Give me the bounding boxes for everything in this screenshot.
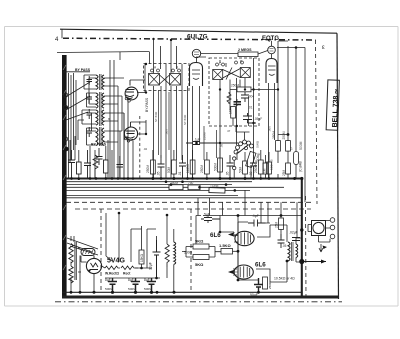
svg-text:SWΩ: SWΩ [256, 140, 260, 148]
capacitor CE5 vertical electrolytic [149, 240, 161, 278]
capacitor C1 [158, 155, 165, 178]
wire coil leads right to tubes [104, 78, 124, 142]
svg-text:EQTG.: EQTG. [262, 36, 281, 42]
wire plate supply vertical 3 [295, 48, 297, 152]
wire R12 joins [278, 135, 288, 164]
svg-text:W.RectΩ: W.RectΩ [105, 272, 119, 276]
svg-text:250M: 250M [203, 132, 207, 140]
inductor CH1 filter choke [174, 242, 176, 264]
svg-text:.1μF: .1μF [194, 138, 200, 142]
wire grid return verticals [124, 100, 133, 179]
svg-text:.1μF: .1μF [252, 214, 259, 218]
wire choke leads [173, 229, 175, 292]
wire diag jack to coil 3 [66, 112, 88, 120]
switch SW1 rotary contacts [234, 140, 253, 154]
box preamp plate network (dashed) [144, 64, 190, 91]
capacitor CL5 [117, 156, 124, 178]
wire top frame line [60, 29, 337, 33]
transformer T3 primary zigzag vertical [69, 244, 73, 264]
label box above tube [81, 249, 95, 256]
resistor RS1 zigzag horizontal [105, 266, 120, 270]
wire diag jack to coil 2 [64, 96, 90, 111]
resistor RB3 1.5K [219, 243, 233, 254]
svg-text:BY PASS: BY PASS [75, 68, 91, 72]
node V4 grid cap [268, 46, 276, 58]
tube V4 6Q7 envelope [266, 59, 277, 84]
node hookup dot mid [287, 133, 290, 136]
wire input top line [57, 52, 149, 53]
svg-text:.006: .006 [268, 126, 272, 132]
resistor RB2 5K lower [193, 255, 209, 268]
tube V7 6L6 lower [233, 265, 253, 279]
resistor RB5 vertical bias [260, 279, 262, 281]
resistor R10 in box2 [237, 87, 251, 92]
wire R6 leads [244, 152, 246, 179]
resistor R7 [258, 160, 263, 174]
capacitor CL2 [84, 150, 91, 178]
resistor R21 inline [188, 185, 200, 190]
node bus junction dots [70, 88, 304, 294]
wire box1 verticals [154, 40, 183, 90]
capacitor C3 coupling mid [186, 142, 238, 145]
wire feedback with arrow [304, 261, 326, 263]
wire diag jack to coil 1 [64, 82, 90, 98]
svg-text:.05: .05 [282, 244, 287, 248]
terminal switch jack 1 [233, 157, 236, 160]
terminal TB1 ring [330, 218, 335, 223]
node V5 pin dots [88, 269, 90, 271]
resistor R12b vertical [286, 141, 291, 152]
svg-text:5V4G: 5V4G [107, 258, 125, 265]
wire R2 leads [153, 150, 174, 179]
svg-text:500V: 500V [144, 287, 152, 291]
wire input box top [63, 72, 90, 90]
svg-text:750: 750 [188, 181, 194, 185]
wire box1 down to bus [154, 86, 183, 178]
svg-text:250M: 250M [282, 131, 286, 139]
wire companion verticals texture [159, 90, 249, 160]
transformer T2 winding pair 2 [96, 127, 104, 146]
wire R3 leads [192, 150, 194, 179]
input jack J3 [63, 137, 67, 141]
svg-text:500M: 500M [299, 141, 303, 150]
svg-text:8μF: 8μF [144, 278, 150, 282]
transformer T1 winding pair 2 [96, 92, 104, 109]
svg-text:.05μF: .05μF [254, 117, 262, 121]
svg-text:30μF: 30μF [149, 262, 153, 270]
wire bottom border thick [62, 296, 338, 299]
tube V5 rectifier 5V4G circle [86, 258, 101, 273]
wire PSU horizontal hookups [131, 229, 156, 268]
capacitor CB3 [278, 234, 285, 248]
svg-text:.02: .02 [143, 147, 148, 151]
svg-text:500V: 500V [105, 287, 113, 291]
node V3 grid cap [192, 49, 200, 62]
capacitor C4 [227, 155, 234, 178]
tube V6 6L6 upper [234, 231, 254, 245]
capacitor C10 [241, 92, 249, 103]
wire plate supply vertical 4 [304, 48, 306, 203]
wire V5 hookups [80, 256, 105, 293]
capacitor CE3 electrolytic [144, 278, 156, 292]
svg-text:.05: .05 [157, 171, 161, 176]
svg-text:8μF: 8μF [128, 278, 134, 282]
wire RB3 to splitter [233, 250, 239, 252]
transformer T3 core lines [75, 242, 76, 280]
svg-text:10.5KΩ or 4Ω: 10.5KΩ or 4Ω [274, 277, 295, 281]
node scatter dots [65, 38, 254, 180]
svg-text:500M: 500M [213, 163, 217, 171]
tube V3 6UL7G envelope [190, 63, 203, 87]
wire input long verticals [69, 73, 77, 178]
svg-text:25M: 25M [282, 169, 286, 176]
svg-text:4: 4 [55, 37, 59, 43]
wire SW1 hookup [236, 126, 250, 160]
input jack J2 [63, 105, 67, 109]
resistor RS2 zigzag horizontal [121, 266, 138, 270]
wire RB pair leads [182, 247, 221, 258]
capacitor Cin3 [87, 109, 93, 119]
capacitor CB5 across primary [292, 238, 300, 241]
wire terminal hookups [319, 221, 331, 243]
wire bus line 2 [66, 181, 252, 183]
node junction dot A [299, 259, 304, 264]
svg-text:8μF: 8μF [105, 278, 111, 282]
wire tube plate leads [130, 64, 146, 134]
wire bottom dash-dot line [55, 301, 342, 303]
svg-text:TONE: TONE [210, 184, 219, 188]
wire coil leads left [78, 75, 96, 145]
svg-text:BELL 738 ∼: BELL 738 ∼ [332, 88, 340, 127]
wire verticals crossing into output box [198, 190, 297, 237]
label BELL 738 box [326, 80, 340, 130]
capacitor CL1 [68, 150, 75, 178]
wire splitter vertical [237, 222, 239, 280]
speaker SP1 cone circle [313, 222, 324, 233]
wire bus line 5 [66, 189, 250, 191]
wire bus line 3 [66, 184, 232, 186]
svg-text:250M: 250M [170, 181, 178, 185]
resistor RS4 zigzag vertical [165, 244, 169, 267]
resistor network RN3 (x-box) [213, 70, 223, 80]
wire V3 pins [188, 57, 207, 178]
svg-text:250M: 250M [200, 165, 204, 173]
svg-text:1MEG: 1MEG [186, 163, 190, 173]
speaker SP1 frame [312, 221, 326, 236]
wire lower-left hookups [70, 136, 95, 178]
wire grid leak link [201, 51, 268, 55]
wire bottom border thin [62, 291, 302, 293]
capacitor C2 [179, 155, 186, 178]
svg-text:ST-56Ω: ST-56Ω [154, 111, 158, 122]
resistor R14 rounded vertical [294, 152, 299, 165]
svg-text:ε: ε [322, 45, 325, 51]
capacitor CE1 electrolytic [105, 278, 117, 292]
wire crossing diagonals box2 [223, 68, 241, 80]
svg-text:.006: .006 [165, 129, 169, 135]
resistor RL3 [104, 160, 109, 173]
wire RS3 leads [135, 229, 147, 268]
transformer T1 winding pair 1 [96, 74, 104, 90]
wire RL1 leads [78, 150, 80, 179]
node V2 pin circles [125, 137, 130, 142]
ground bus left (hatched bar) [62, 55, 67, 298]
resistor R20 inline [169, 185, 183, 190]
svg-text:250M: 250M [272, 131, 276, 139]
node pin circles box2 [216, 61, 244, 66]
wire plate supply vertical 2 [287, 46, 289, 141]
wire top-left corner tick [61, 30, 63, 39]
svg-text:50M: 50M [167, 166, 171, 173]
wire top dash-dot line [63, 38, 316, 40]
svg-text:.02: .02 [249, 171, 253, 176]
svg-text:Rect: Rect [123, 272, 131, 276]
box EQ network (dashed) [209, 58, 259, 126]
speaker SP1 magnet tab [308, 225, 312, 232]
wire crossing diagonals box1 [160, 75, 170, 84]
svg-text:250M: 250M [231, 84, 239, 88]
tube V1 internals [126, 80, 135, 99]
node hookup dot top [295, 46, 298, 49]
node junction dot B [300, 228, 303, 231]
resistor R4 [205, 160, 210, 174]
wire top hookups right [277, 41, 305, 48]
svg-text:47: 47 [227, 129, 231, 133]
svg-text:.05: .05 [220, 143, 224, 148]
svg-text:250M: 250M [146, 165, 150, 173]
wire T3 leads [71, 236, 81, 292]
svg-text:.01: .01 [178, 171, 182, 176]
wire RL3 leads [105, 146, 107, 179]
resistor network RN2 (x-box) [170, 74, 181, 86]
resistor R2 [172, 160, 177, 174]
svg-text:D: D [240, 60, 243, 64]
resistor R1 [151, 160, 156, 174]
input jack J1 [63, 93, 67, 97]
svg-text:BY PASS: BY PASS [91, 143, 107, 147]
wire R14 leads [295, 165, 297, 179]
capacitor CL4 [96, 148, 103, 165]
resistor RB4 vertical [279, 218, 284, 230]
resistor R13 vertical lower [286, 163, 291, 174]
resistor R12 vertical [276, 141, 281, 152]
arrow grid arrow lower [229, 270, 239, 274]
wire V4 pins down [269, 41, 275, 178]
capacitor Cin1 [87, 76, 93, 85]
wire bias leads [238, 278, 259, 280]
svg-text:25M: 25M [275, 221, 279, 228]
resistor RS3 vertical box [139, 250, 144, 264]
wire dashed vertical right outer [305, 196, 308, 299]
wire bus line 6 [66, 195, 238, 197]
svg-text:(C)84B: (C)84B [299, 161, 303, 172]
wire RB4 leads [280, 230, 282, 239]
capacitor C12 [243, 113, 256, 123]
svg-text:.05: .05 [226, 171, 230, 176]
wire right vertical thick bus [301, 179, 303, 297]
wire input frame verticals [120, 52, 150, 65]
wire RS4 top leads [166, 235, 168, 278]
wire box2 verticals down [220, 58, 254, 178]
svg-text:500V: 500V [128, 287, 136, 291]
resistor network RN4 (x-box) [240, 68, 250, 78]
resistor R11 zigzag small [227, 94, 231, 105]
svg-text:6UL7G: 6UL7G [187, 34, 208, 41]
wire vert trunk lines mid-left [108, 60, 124, 178]
tube V2 internals [126, 122, 135, 140]
node input blob [64, 147, 68, 151]
wire R7 leads [260, 150, 262, 179]
wire R11 leads [229, 92, 237, 126]
resistor R15 vertical lower-left [263, 163, 268, 174]
svg-text:.02μF: .02μF [289, 231, 298, 235]
wire bus line 7 [66, 197, 302, 199]
capacitor Cin4 [87, 127, 93, 137]
svg-text:15KΩ: 15KΩ [140, 253, 144, 262]
wire tap line with arrow down [319, 244, 323, 252]
svg-text:6L6: 6L6 [255, 262, 266, 269]
resistor RL2 zigzag [93, 155, 98, 178]
wire PSU verticals upper [106, 213, 167, 268]
resistor Rgrid horizontal [238, 52, 258, 57]
capacitor C5 [250, 155, 257, 178]
transformer T2 winding pair 1 [96, 109, 104, 126]
resistor R11b vertical box [231, 107, 236, 119]
wire dashed bus line [66, 201, 311, 203]
wire R5 leads [219, 148, 221, 179]
svg-text:1M: 1M [262, 168, 266, 173]
svg-text:250Ω: 250Ω [268, 281, 272, 289]
resistor RL1 [77, 162, 82, 174]
wire R4 leads [206, 152, 208, 179]
capacitor CB1 0.5uF [201, 213, 220, 221]
svg-text:.004: .004 [248, 95, 254, 99]
potentiometer VR1 slanted [246, 151, 256, 178]
svg-text:BY-PASS: BY-PASS [145, 97, 149, 112]
resistor R3 [190, 160, 195, 174]
resistor R8 [267, 162, 272, 174]
wire T4 leads [287, 225, 302, 282]
node pin circles box1 [151, 69, 181, 72]
wire R8 leads [268, 152, 270, 179]
svg-text:5KΩ: 5KΩ [195, 262, 204, 267]
wire AC input diagonals [67, 236, 98, 255]
resistor network RN1 (x-box) [149, 74, 160, 86]
svg-text:250M: 250M [254, 165, 258, 173]
resistor RB1 5K upper [193, 239, 209, 250]
arrow feedback arrowhead [321, 260, 326, 264]
svg-text:ST-56Ω: ST-56Ω [183, 114, 187, 125]
wire dashed box top of PSU section [75, 208, 311, 210]
tube V1 triode circle [125, 87, 138, 100]
wire dashed vertical right inner [316, 40, 318, 204]
resistor R5 [218, 158, 223, 172]
svg-text:G: G [290, 147, 293, 151]
arrow grid arrow upper [229, 233, 239, 237]
capacitor CB4 50uF bottom [250, 278, 263, 297]
label tiny value texts scattered [146, 60, 293, 249]
svg-text:A: A [154, 66, 157, 70]
arrow tap arrowhead [323, 246, 328, 250]
label texture smudges rotated [108, 111, 272, 151]
capacitor Cin2 [87, 93, 93, 103]
transformer T3 secondary zigzag vertical [69, 266, 73, 283]
capacitor CE2 electrolytic [128, 278, 140, 292]
tube V5 internals [90, 256, 98, 270]
resistor RB6 cathode [263, 277, 273, 289]
wire PSU dashed partition [100, 209, 102, 290]
resistor R6 [243, 161, 248, 174]
wire output stage dashed partition [190, 209, 192, 291]
svg-text:B: B [176, 66, 178, 70]
capacitor CB2 0.1uF [248, 214, 266, 227]
wire R10 link [230, 80, 278, 111]
svg-text:1M: 1M [229, 109, 233, 114]
svg-text:50μF: 50μF [250, 293, 258, 297]
tube V2 triode circle [124, 127, 137, 140]
terminal TB3 ring [330, 234, 335, 239]
svg-text:50M: 50M [238, 166, 242, 173]
terminal switch jack 2 [233, 166, 236, 169]
wire B+ bus main [66, 178, 302, 180]
wire B rail horizontal [105, 277, 160, 279]
resistor R22 inline slanted [209, 188, 225, 194]
wire bus line 4 with inline resistors [66, 186, 284, 188]
transformer T4 output primary [288, 242, 298, 261]
wire jack stems [233, 160, 235, 178]
node V1 pin circles [125, 97, 130, 102]
wire plate supply vertical 1 [277, 41, 279, 141]
wire output plates [256, 225, 287, 282]
svg-text:VOLUME: VOLUME [253, 152, 261, 166]
wire right frame border [337, 33, 339, 299]
wire dashed partial mid-left [139, 116, 141, 178]
svg-text:2 MEGS: 2 MEGS [238, 48, 252, 52]
wire mid hookups [196, 216, 302, 245]
wire R15 leads [265, 155, 288, 179]
terminal TB2 ring [330, 225, 335, 230]
capacitor C11 (dark electrolytic) [234, 102, 242, 105]
svg-text:1.5KΩ: 1.5KΩ [219, 243, 231, 248]
